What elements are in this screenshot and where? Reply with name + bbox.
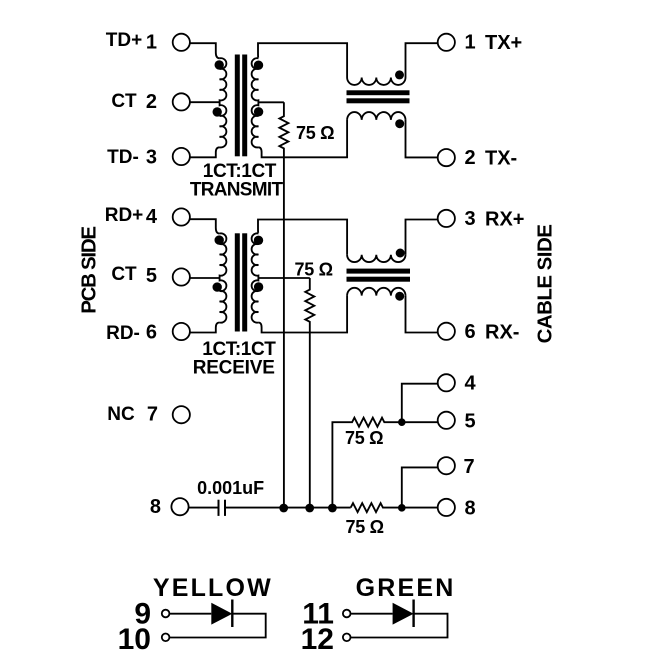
svg-text:TX-: TX- <box>485 148 517 170</box>
wire pin4 right branch <box>402 384 438 423</box>
choke L2 bottom winding <box>347 288 405 296</box>
wire pin11 to LED D2 <box>351 613 393 615</box>
svg-text:GREEN: GREEN <box>356 574 456 602</box>
wire junction to pin7 <box>402 467 438 507</box>
choke L1 core bar 2 <box>347 98 410 103</box>
svg-text:7: 7 <box>147 404 158 426</box>
transformer T1 core bar 2 <box>242 55 247 157</box>
pin 8 circle left <box>171 498 188 515</box>
pin 6 circle right <box>438 323 455 340</box>
svg-text:6: 6 <box>146 322 157 344</box>
LED D1 cathode bar <box>231 600 233 628</box>
LED D2 cathode bar <box>412 600 414 628</box>
svg-text:RD+: RD+ <box>105 205 144 226</box>
svg-text:10: 10 <box>118 623 151 656</box>
svg-text:PCB SIDE: PCB SIDE <box>78 227 101 314</box>
junction dot rail pin7 branch <box>398 504 406 512</box>
pin 6 circle left <box>173 323 190 340</box>
bottom rail wire <box>225 507 351 509</box>
svg-text:NC: NC <box>107 404 135 425</box>
choke L1 bottom dot <box>395 119 404 128</box>
svg-text:CT: CT <box>111 91 137 112</box>
svg-text:RX-: RX- <box>485 322 519 344</box>
choke L1 top dot <box>395 70 404 79</box>
wire pin4 to T2 primary top <box>190 219 220 233</box>
pin 2 circle left <box>173 93 190 110</box>
T2 secondary dot lower <box>254 282 263 291</box>
junction dot rail R1 <box>279 504 288 513</box>
pin 3 circle right <box>438 210 455 227</box>
capacitor C1 0.001uF plate 2 <box>224 500 226 516</box>
transformer T1 core bar 1 <box>235 55 240 157</box>
wire pin5 to T2 primary CT <box>190 277 219 279</box>
T2 primary dot lower <box>213 282 222 291</box>
wire pin2 to T1 primary CT <box>190 101 219 103</box>
wire pin3 to T1 primary bottom <box>190 147 220 157</box>
pin 10 circle <box>162 634 170 642</box>
svg-text:1: 1 <box>465 32 476 54</box>
wire T1 secondary CT to resistor R1 <box>258 101 284 103</box>
wire choke L2 top to pin3 right <box>406 220 438 255</box>
transformer T2 secondary winding (right) <box>252 233 259 322</box>
wire pin6 to T2 primary bottom <box>190 323 220 333</box>
choke L1 bottom winding <box>347 112 405 120</box>
pin 2 circle right <box>438 149 455 166</box>
pin 9 circle <box>162 610 170 618</box>
wire pin8 to capacitor <box>189 507 219 509</box>
transformer T1 primary winding (left) <box>220 58 227 147</box>
LED D2 anode triangle <box>393 603 414 625</box>
T2 secondary dot upper <box>254 236 263 245</box>
wire T1 secondary bottom rail <box>258 120 347 157</box>
wire T2 secondary CT to resistor R2 <box>258 277 309 279</box>
pin 3 circle left <box>173 148 190 165</box>
T1 primary dot upper <box>215 60 224 69</box>
R3 junction dot (pins 4/5) <box>398 418 406 426</box>
svg-text:4: 4 <box>146 206 158 228</box>
svg-text:2: 2 <box>146 91 157 113</box>
svg-text:TX+: TX+ <box>485 32 522 54</box>
T1 secondary dot lower <box>254 107 263 116</box>
choke L2 core bar 2 <box>347 277 411 282</box>
svg-text:75 Ω: 75 Ω <box>295 259 333 279</box>
transformer T2 core bar 1 <box>235 233 240 331</box>
junction dot rail R3 <box>328 504 337 513</box>
wire choke L1 bottom to pin2 right <box>406 120 438 157</box>
svg-text:1: 1 <box>146 32 157 54</box>
T1 secondary dot upper <box>254 60 263 69</box>
capacitor C1 0.001uF plate 1 <box>218 500 220 516</box>
transformer T2 primary winding (left) <box>220 233 227 322</box>
pin 5 circle right <box>438 412 455 429</box>
junction dot rail R2 <box>305 504 314 513</box>
svg-text:8: 8 <box>465 498 476 520</box>
svg-text:5: 5 <box>146 265 157 287</box>
svg-text:CT: CT <box>111 264 137 285</box>
transformer T2 core bar 2 <box>242 233 247 331</box>
pin 1 circle right <box>438 34 455 51</box>
svg-text:TD+: TD+ <box>106 30 142 51</box>
choke L2 top dot <box>396 249 405 258</box>
choke L1 top winding <box>347 78 405 85</box>
resistor R4 75ohm (pins 7/8) <box>351 503 438 512</box>
wire T2 secondary bottom rail <box>258 296 347 333</box>
resistor R3 75ohm (pins 4/5) <box>332 418 401 508</box>
wire choke L2 bottom to pin6 right <box>406 296 438 333</box>
choke L1 core bar 1 <box>347 90 410 95</box>
svg-text:4: 4 <box>465 373 477 395</box>
wire T2 secondary top to choke L2 <box>258 220 347 255</box>
pin 4 circle left <box>173 208 190 225</box>
choke L2 core bar 1 <box>347 269 411 274</box>
pin 4 circle right <box>438 374 455 391</box>
wire LED D1 cathode to pin10 <box>170 614 266 638</box>
pin 8 circle right <box>438 499 455 516</box>
svg-text:CABLE SIDE: CABLE SIDE <box>534 225 557 344</box>
svg-text:75 Ω: 75 Ω <box>345 428 383 448</box>
wire pin5 right branch <box>402 421 438 423</box>
svg-text:TRANSMIT: TRANSMIT <box>190 180 284 201</box>
svg-text:6: 6 <box>465 321 476 343</box>
wire T1 secondary top to choke L1 <box>258 43 347 77</box>
svg-text:TD-: TD- <box>107 147 139 168</box>
wire LED D2 cathode to pin12 <box>351 614 448 638</box>
svg-text:2: 2 <box>465 147 476 169</box>
svg-text:3: 3 <box>146 147 157 169</box>
transformer T1 secondary winding (right) <box>252 58 259 147</box>
choke L2 top winding <box>347 255 405 262</box>
wire choke L1 top to pin1 right <box>406 43 438 77</box>
pin 5 circle left <box>173 268 190 285</box>
svg-text:5: 5 <box>465 411 476 433</box>
svg-text:75 Ω: 75 Ω <box>346 517 384 537</box>
svg-text:3: 3 <box>465 208 476 230</box>
T1 primary dot lower <box>213 107 222 116</box>
resistor R2 75ohm (receive termination) <box>305 278 314 508</box>
pin 11 circle <box>343 610 351 618</box>
svg-text:0.001uF: 0.001uF <box>197 478 264 498</box>
wire pin9 to LED D1 <box>170 613 212 615</box>
resistor R1 75ohm (transmit termination) <box>279 102 288 507</box>
wire pin1 to T1 primary top <box>190 43 220 58</box>
pin 1 circle left <box>173 34 190 51</box>
svg-text:RD-: RD- <box>106 323 140 344</box>
svg-text:RECEIVE: RECEIVE <box>193 358 275 379</box>
svg-text:YELLOW: YELLOW <box>153 574 273 602</box>
svg-text:8: 8 <box>150 496 161 518</box>
svg-text:75 Ω: 75 Ω <box>296 123 334 143</box>
pin 7 circle left (NC) <box>173 406 190 423</box>
svg-text:7: 7 <box>464 456 475 478</box>
LED D1 anode triangle <box>211 603 232 625</box>
svg-text:12: 12 <box>301 623 334 656</box>
pin 12 circle <box>343 634 351 642</box>
choke L2 bottom dot <box>395 292 404 301</box>
T2 primary dot upper <box>215 235 224 244</box>
svg-text:RX+: RX+ <box>485 209 524 231</box>
pin 7 circle right <box>438 457 455 474</box>
